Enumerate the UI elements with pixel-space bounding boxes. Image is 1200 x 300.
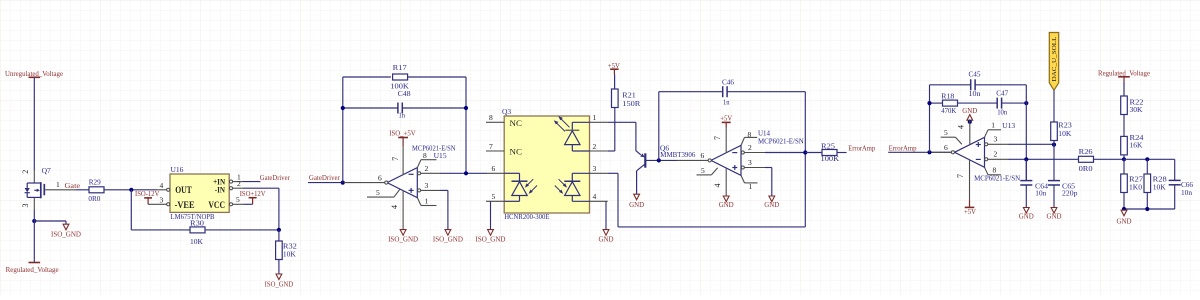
svg-text:6: 6: [701, 151, 705, 160]
power port +5V (U13, flipped): [964, 200, 976, 215]
svg-text:0R0: 0R0: [88, 194, 100, 203]
wire R25 to ErrorAmp: [837, 152, 847, 154]
wire feedback left vertical: [342, 77, 344, 183]
power port ISO_+5V: [389, 128, 416, 146]
svg-text:ISO-12V: ISO-12V: [135, 189, 160, 198]
U14 pin 5: [697, 166, 718, 175]
wire Q3 pin5 to ISO_GND: [490, 201, 492, 229]
wire R17 to right vertical: [408, 76, 466, 78]
U13 pin 1: [985, 130, 1002, 138]
svg-text:6: 6: [378, 174, 382, 183]
U15 pin 6: [344, 174, 388, 185]
svg-text:GND: GND: [719, 200, 734, 209]
ground ISO_GND (R32): [265, 274, 294, 288]
svg-text:3: 3: [994, 134, 998, 143]
Q3 pin 2: [590, 142, 608, 151]
svg-text:HCNR200-300E: HCNR200-300E: [504, 212, 550, 221]
svg-text:1n: 1n: [399, 110, 406, 119]
U16 pin 1: [229, 172, 243, 183]
resistor R17: [390, 63, 409, 90]
svg-text:8: 8: [489, 113, 493, 122]
wire U13 pin3 to R23 node: [1008, 143, 1054, 145]
Q3 pin 6: [487, 164, 504, 174]
svg-text:5: 5: [492, 192, 496, 201]
wire C46 right vertical: [804, 92, 806, 227]
capacitor C45: [969, 69, 981, 98]
svg-text:1: 1: [56, 180, 60, 189]
U14 pin 2: [741, 143, 765, 154]
Q3 pin 1: [590, 113, 608, 122]
svg-text:Regulated_Voltage: Regulated_Voltage: [1098, 68, 1150, 77]
svg-text:Regulated_Voltage: Regulated_Voltage: [6, 265, 59, 274]
resistor R27: [1121, 159, 1144, 209]
U15 pin 1: [417, 196, 436, 205]
Q3 photodiode (pins 3-4): [555, 173, 590, 201]
svg-text:3: 3: [593, 164, 597, 173]
power port Regulated_Voltage (right): [1098, 68, 1150, 96]
wire C45 row left: [930, 84, 971, 86]
svg-text:R26: R26: [1079, 147, 1093, 156]
svg-text:NC: NC: [510, 118, 523, 128]
U15 pin 8: [417, 151, 436, 167]
svg-text:16K: 16K: [1130, 141, 1144, 150]
svg-text:470K: 470K: [941, 106, 957, 115]
svg-text:U15: U15: [434, 151, 447, 160]
wire R26 to ladder: [1094, 158, 1125, 160]
Q3 pin 5: [486, 192, 504, 201]
svg-text:2: 2: [425, 164, 429, 173]
wire U15 pin2 to optocoupler pin6: [440, 172, 487, 174]
svg-text:R29: R29: [89, 177, 101, 186]
wire R22 to R24: [1123, 115, 1125, 137]
wire Q6 base to U14 pin6: [645, 159, 677, 161]
ground GND (C64): [1019, 208, 1034, 221]
svg-text:R21: R21: [622, 91, 636, 100]
power port Unregulated_Voltage: [5, 69, 63, 78]
wire C47 to right vertical: [1002, 102, 1027, 104]
wire C46 row left: [659, 91, 723, 93]
wire Q3 pin4 to GND: [605, 201, 607, 229]
wire Q3 pin1 to Q6 emitter: [608, 121, 636, 123]
svg-text:10K: 10K: [190, 237, 204, 246]
resistor R32: [276, 230, 298, 260]
svg-text:0R0: 0R0: [1079, 164, 1093, 173]
U13 pin 7: [956, 160, 969, 201]
wire U16 pin1 to GateDriver: [243, 181, 260, 183]
svg-text:DAC_U_SOLL: DAC_U_SOLL: [1051, 36, 1058, 81]
wire R32 to ISO_GND: [278, 260, 280, 275]
U13 pin 2: [985, 150, 1008, 161]
U16 pin 3: [148, 196, 170, 206]
resistor R25: [821, 141, 840, 163]
svg-text:MMBT3906: MMBT3906: [660, 150, 695, 159]
wire feedback right vertical: [465, 77, 467, 173]
svg-text:5: 5: [944, 128, 948, 137]
resistor R23: [1051, 120, 1072, 140]
svg-text:ISO_GND: ISO_GND: [476, 235, 506, 244]
junction: [341, 181, 345, 185]
resistor R26: [1079, 147, 1094, 173]
svg-text:ISO_GND: ISO_GND: [265, 279, 294, 288]
svg-text:1: 1: [991, 121, 995, 130]
svg-text:4: 4: [390, 205, 399, 209]
svg-text:1: 1: [749, 182, 753, 191]
junction: [464, 106, 468, 110]
wire U13 feedback right vertical: [1025, 85, 1027, 181]
wire R23 to pin3 node and C65: [1053, 141, 1055, 181]
svg-text:GND: GND: [1047, 212, 1062, 221]
resistor R30: [190, 219, 205, 247]
junction: [129, 188, 133, 192]
wire U15 pin3 to ISO_GND: [440, 189, 448, 191]
wire U14 pin3 to GND: [765, 167, 772, 169]
wire Q7 source down to Regulated_Voltage: [33, 210, 35, 263]
svg-text:10K: 10K: [1058, 129, 1072, 138]
power port ISO+12V: [240, 189, 266, 204]
svg-text:1: 1: [425, 196, 429, 205]
wire U14 pin2 to R25 node: [765, 152, 805, 154]
svg-text:Q3: Q3: [502, 107, 511, 116]
svg-text:MCP6021-E/SN: MCP6021-E/SN: [758, 137, 804, 146]
svg-text:GND: GND: [599, 235, 614, 244]
svg-text:Gate: Gate: [65, 181, 81, 190]
svg-text:4: 4: [957, 125, 966, 129]
op-amp U14 MCP6021-E/SN: [711, 129, 804, 176]
svg-text:10n: 10n: [1181, 188, 1192, 197]
wire U13 pin2 output row: [1008, 158, 1079, 160]
svg-text:4: 4: [713, 184, 722, 188]
svg-text:C48: C48: [398, 89, 411, 98]
svg-text:10n: 10n: [997, 108, 1007, 117]
wire bottom row of ladder: [1124, 208, 1175, 210]
ground GND (U13 pin4, flipped): [962, 106, 977, 120]
svg-text:U16: U16: [171, 165, 184, 174]
svg-text:2: 2: [21, 170, 30, 174]
wire C48 row right: [402, 107, 466, 109]
capacitor C65: [1048, 181, 1078, 198]
Q3 photodiode (pins 5-6): [504, 173, 537, 201]
U15 pin 2: [418, 164, 440, 175]
wire C64 to GND: [1025, 185, 1027, 208]
junction: [1145, 157, 1149, 161]
svg-text:R18: R18: [941, 92, 954, 101]
svg-text:7: 7: [489, 142, 493, 151]
svg-text:C46: C46: [722, 77, 734, 86]
svg-text:1n: 1n: [723, 98, 730, 107]
svg-text:3: 3: [160, 196, 164, 205]
wire junction down to R30 row: [130, 190, 132, 230]
wire C46 row right: [727, 91, 805, 93]
ground GND (ladder): [1117, 210, 1132, 225]
wire R30 to R32 node: [205, 229, 279, 231]
ground GND (U14 pin4): [719, 196, 734, 209]
svg-text:10K: 10K: [283, 249, 297, 258]
svg-text:3: 3: [21, 204, 30, 208]
U15 pin 5: [367, 188, 400, 197]
ground GND (Q6): [629, 194, 644, 209]
svg-text:R30: R30: [190, 219, 204, 228]
svg-text:C47: C47: [996, 88, 1008, 97]
resistor R24: [1121, 133, 1144, 155]
svg-text:30K: 30K: [1130, 105, 1144, 114]
svg-text:10K: 10K: [1153, 183, 1167, 192]
svg-text:8: 8: [423, 151, 427, 160]
junction: [1024, 101, 1028, 105]
wire C48 row left: [343, 107, 398, 109]
svg-text:-IN: -IN: [215, 185, 225, 194]
wire C46 left vertical: [658, 92, 660, 161]
svg-text:GND: GND: [1019, 212, 1034, 221]
svg-text:ISO+12V: ISO+12V: [240, 189, 266, 198]
wire C45 row right: [975, 84, 1026, 86]
svg-text:2: 2: [748, 143, 752, 152]
Q3 pin 7: [486, 142, 504, 151]
power port +5V (R21): [608, 61, 620, 89]
svg-text:U13: U13: [1002, 121, 1015, 130]
junction: [927, 150, 931, 154]
svg-text:+5V: +5V: [964, 207, 976, 216]
svg-text:150R: 150R: [622, 99, 640, 108]
U13 pin 6: [932, 143, 955, 154]
svg-text:7: 7: [391, 157, 400, 161]
capacitor C66: [1169, 159, 1194, 209]
wire R21 to Q3 pin2: [614, 108, 616, 152]
Q3 pin 3: [590, 164, 608, 173]
ground ISO_GND (U15 pin3): [433, 230, 463, 244]
svg-text:ISO_+5V: ISO_+5V: [389, 128, 416, 137]
wire Unregulated_Voltage to Q7 drain: [33, 77, 35, 170]
resistor R18: [941, 92, 957, 116]
wire R18 row left: [930, 102, 943, 104]
wire U16 pin2 down to R32 node: [243, 187, 279, 189]
wire R24 to node: [1123, 155, 1125, 159]
capacitor C46: [722, 77, 734, 106]
wire node row to C66: [1124, 158, 1175, 160]
svg-text:Unregulated_Voltage: Unregulated_Voltage: [5, 69, 63, 78]
svg-text:4: 4: [593, 192, 597, 201]
optocoupler Q3 HCNR200-300E body: [502, 107, 590, 221]
junction: [341, 106, 345, 110]
Q3 pin 4: [590, 192, 608, 201]
wire R18 to C47: [958, 102, 998, 104]
junction: [277, 228, 281, 232]
ground ISO_GND (Q7): [51, 224, 81, 238]
wire DAC_U_SOLL to R23: [1053, 90, 1055, 122]
svg-text:2: 2: [994, 150, 998, 159]
svg-text:1: 1: [593, 113, 597, 122]
svg-text:10n: 10n: [1035, 189, 1046, 198]
U16 pin 2: [229, 179, 243, 190]
svg-text:ISO_GND: ISO_GND: [51, 229, 81, 238]
op-amp U16 LM675T/NOPB body: [170, 165, 229, 221]
ground ISO_GND (U15 pin4): [388, 230, 418, 244]
svg-text:5: 5: [701, 166, 705, 175]
op-amp U15 MCP6021-E/SN: [387, 143, 456, 197]
svg-text:220p: 220p: [1062, 189, 1078, 198]
transistor Q6 MMBT3906: [636, 143, 696, 194]
capacitor C64: [1020, 159, 1048, 197]
wire Q7 source to ISO_GND stub: [34, 220, 66, 222]
resistor R22: [1121, 96, 1144, 115]
junction: [927, 101, 931, 105]
U14 pin 8: [741, 137, 757, 145]
svg-text:ISO_GND: ISO_GND: [388, 235, 418, 244]
svg-text:7: 7: [956, 174, 965, 178]
svg-text:C45: C45: [969, 69, 981, 78]
junction: [657, 158, 661, 162]
wire ErrorAmp to U13 pin6: [888, 151, 952, 153]
svg-text:-VEE: -VEE: [175, 201, 195, 211]
svg-text:4: 4: [160, 181, 164, 190]
svg-text:2: 2: [593, 142, 597, 151]
svg-text:Q7: Q7: [42, 166, 51, 175]
svg-text:10n: 10n: [969, 89, 981, 98]
ground GND (C65): [1047, 208, 1062, 221]
svg-text:5: 5: [376, 188, 380, 197]
U16 pin 5: [229, 195, 243, 206]
wire Q7 gate to R29: [76, 189, 89, 191]
U13 pin 4: [957, 120, 972, 145]
U14 pin 6: [677, 151, 711, 162]
resistor R29: [88, 177, 104, 203]
U13 pin 3: [985, 134, 1008, 145]
svg-text:GND: GND: [962, 106, 977, 115]
junction: [1052, 143, 1056, 147]
op-amp U13 MCP6021-E/SN: [955, 121, 1021, 183]
svg-text:GND: GND: [1117, 216, 1132, 225]
capacitor C47: [996, 88, 1008, 116]
U14 pin 4: [713, 168, 726, 196]
wire R29 to U16 pin4: [104, 189, 157, 191]
power port Regulated_Voltage (left): [6, 263, 59, 275]
wire top feedback row to R17: [343, 76, 391, 78]
svg-text:2: 2: [237, 179, 241, 188]
capacitor C48: [398, 89, 411, 119]
junction: [1122, 207, 1126, 211]
wire U13 feedback left vertical: [929, 85, 931, 153]
svg-text:3: 3: [748, 158, 752, 167]
ground GND (U14 pin3): [764, 196, 779, 209]
resistor R21: [612, 89, 641, 108]
svg-text:GateDriver: GateDriver: [260, 173, 290, 182]
wire R30 feedback row: [131, 229, 190, 231]
port DAC_U_SOLL: [1049, 33, 1058, 91]
ground GND (Q3 pin4): [599, 230, 614, 244]
power port ISO-12V: [135, 189, 160, 204]
ground ISO_GND (Q3 pin5): [476, 230, 506, 244]
wire Q3 pin3 bottom loop: [608, 172, 618, 174]
svg-text:7: 7: [713, 136, 722, 140]
svg-text:8: 8: [993, 166, 997, 175]
U13 pin 5: [941, 128, 962, 145]
U14 pin 7: [713, 128, 726, 153]
svg-text:ErrorAmp: ErrorAmp: [848, 143, 875, 152]
svg-text:GND: GND: [764, 200, 779, 209]
svg-text:GND: GND: [629, 200, 644, 209]
svg-text:6: 6: [944, 143, 948, 152]
svg-text:6: 6: [492, 164, 496, 173]
U15 pin 7: [391, 146, 403, 175]
svg-text:GateDriver: GateDriver: [309, 173, 340, 182]
svg-text:OUT: OUT: [175, 186, 192, 196]
svg-text:1K0: 1K0: [1129, 183, 1142, 192]
U15 pin 4: [390, 191, 403, 230]
U16 pin 4: [157, 181, 170, 192]
junction: [803, 150, 807, 154]
wire U16 pin5 to ISO+12V: [244, 203, 253, 205]
svg-text:VCC: VCC: [208, 201, 225, 211]
wire C65 to GND: [1053, 185, 1055, 208]
wire GateDriver to U15 pin6: [308, 182, 344, 184]
svg-text:ISO_GND: ISO_GND: [433, 235, 463, 244]
U14 pin 1: [741, 175, 758, 190]
wire R25 left: [805, 152, 822, 154]
U15 pin 3: [418, 181, 440, 192]
svg-text:100K: 100K: [821, 154, 840, 163]
U13 pin 8: [985, 166, 1002, 175]
resistor R28: [1144, 159, 1167, 209]
svg-text:NC: NC: [510, 147, 523, 157]
U14 pin 3: [741, 158, 765, 169]
svg-text:3: 3: [425, 181, 429, 190]
svg-text:R17: R17: [393, 63, 407, 72]
junction: [1024, 157, 1028, 161]
transistor Q7 (P-MOSFET): [21, 166, 76, 210]
junction: [464, 171, 468, 175]
svg-text:+5V: +5V: [720, 114, 732, 123]
svg-text:ErrorAmp: ErrorAmp: [889, 144, 917, 153]
Q3 LED (pins 1-2): [554, 116, 590, 151]
junction: [32, 219, 36, 223]
power port +5V (U14): [720, 114, 732, 128]
junction: [1122, 157, 1126, 161]
junction: [1145, 207, 1149, 211]
Q3 pin 8: [486, 113, 504, 122]
